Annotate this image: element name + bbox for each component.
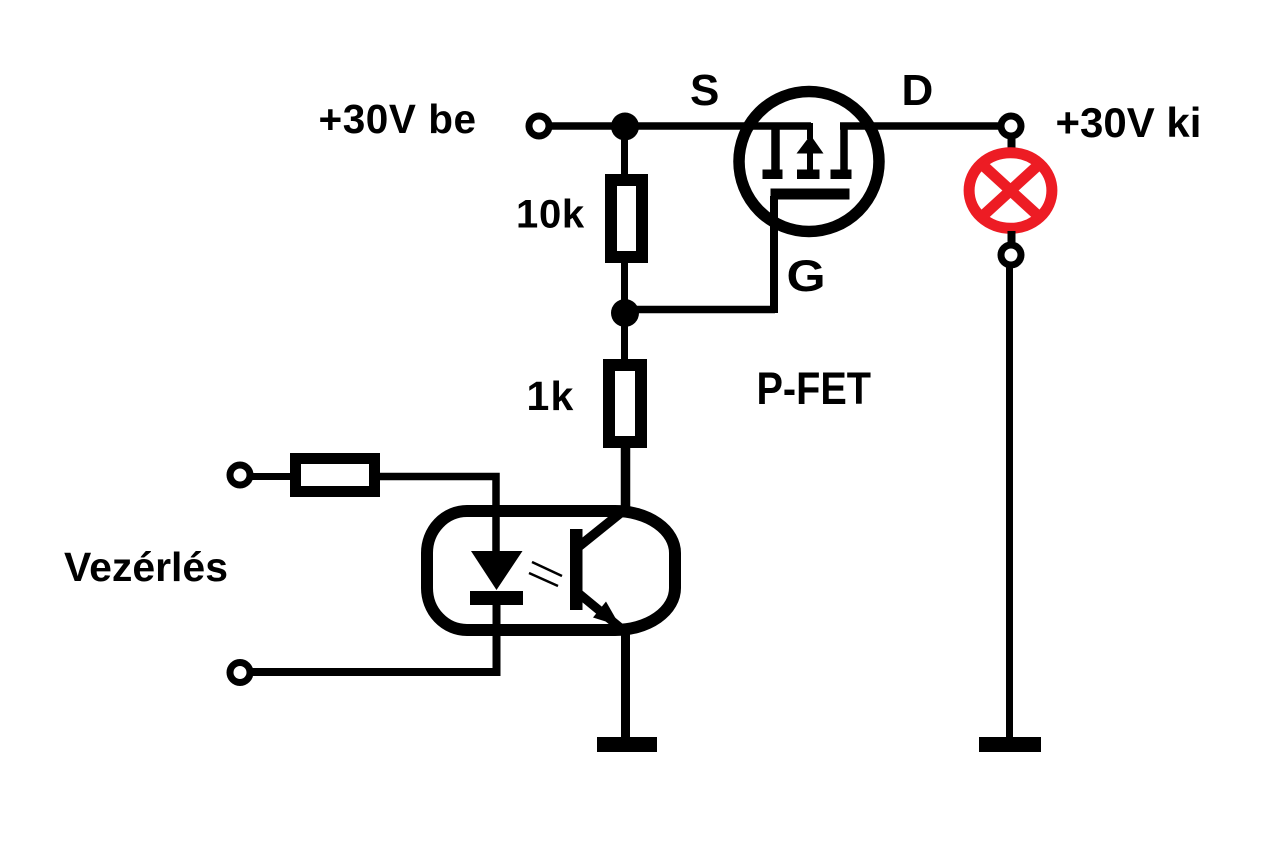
ground right: [979, 737, 1041, 752]
terminal +30V be input: [529, 116, 549, 136]
wire LED cathode down and left to lower control terminal: [250, 600, 497, 672]
node junction J1 at top of 10k: [611, 113, 639, 141]
light ray 2: [529, 573, 558, 586]
svg-text:S: S: [690, 66, 719, 115]
terminal +30V ki output: [1001, 116, 1021, 136]
svg-text:1k: 1k: [527, 373, 575, 419]
wire control top terminal to input resistor: [250, 473, 295, 480]
phototransistor base bar: [570, 529, 583, 610]
FET body lead below arrow: [807, 152, 813, 170]
wire gate horizontal J2 to gate lead: [625, 306, 775, 314]
ground left: [597, 737, 657, 752]
wire J1 to 10k resistor top: [621, 126, 628, 176]
wire 1k bottom to opto collector: [621, 448, 628, 460]
wire output terminal to lamp top: [1008, 135, 1016, 150]
transistor Q1 P-FET circle: [739, 92, 879, 232]
LED D1 triangle: [471, 551, 523, 590]
lamp X stroke 2: [981, 164, 1040, 218]
phototransistor collector lead to 1k: [577, 448, 626, 548]
LED D1 cathode bar: [470, 591, 523, 605]
resistor R2 input body: [296, 459, 375, 492]
resistor R1 10k body: [611, 180, 642, 257]
FET source contact lead: [771, 126, 780, 170]
light ray 1: [532, 562, 562, 576]
wire from +30V be terminal to FET source: [549, 122, 811, 130]
wire gate vertical lead up to FET: [770, 196, 778, 313]
FET gate plate: [771, 189, 850, 200]
wire lamp bottom to lower terminal: [1008, 231, 1016, 247]
svg-text:D: D: [902, 66, 934, 115]
terminal control input bottom: [230, 663, 250, 683]
terminal below lamp: [1001, 245, 1021, 265]
wire lamp return down to ground: [1006, 264, 1013, 740]
lamp X stroke 1: [981, 164, 1040, 218]
svg-text:+30V be: +30V be: [319, 96, 477, 142]
wire FET drain to output terminal: [840, 122, 1002, 130]
node junction J2 between resistors: [611, 299, 639, 327]
svg-text:Vezérlés: Vezérlés: [64, 544, 228, 590]
FET body contact bar: [797, 170, 820, 180]
svg-text:+30V ki: +30V ki: [1056, 99, 1202, 146]
svg-text:P-FET: P-FET: [757, 363, 872, 414]
wire J2 to 1k top: [621, 313, 628, 361]
optocoupler U1 capsule: [427, 511, 675, 630]
FET body stub to wire: [807, 123, 813, 139]
label G: [787, 252, 826, 302]
FET drain contact lead: [840, 126, 848, 170]
lamp L1 circle: [969, 153, 1052, 229]
FET source contact bar: [763, 170, 783, 180]
wire input resistor to LED anode: [380, 477, 496, 557]
FET body arrow (points up): [797, 135, 824, 154]
emitter arrow: [593, 602, 620, 627]
svg-text:G: G: [787, 252, 826, 302]
terminal control input top: [230, 465, 250, 485]
svg-text:10k: 10k: [516, 193, 585, 237]
FET drain contact bar: [831, 170, 852, 180]
phototransistor emitter lead down to ground: [577, 592, 626, 740]
resistor R4 1k body: [609, 365, 641, 442]
wire 10k bottom to J2: [621, 263, 628, 313]
